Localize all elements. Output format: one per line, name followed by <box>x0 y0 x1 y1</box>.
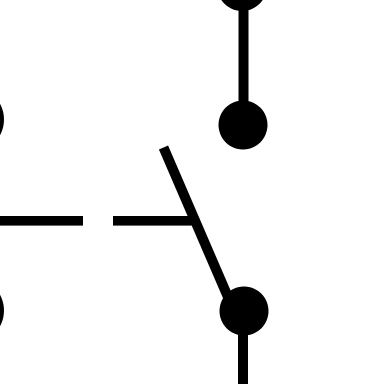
node (top, partially visible at top edge) <box>217 0 267 11</box>
node B (junction dot, common contact) <box>220 287 269 336</box>
terminal (left edge, partially visible, upper) <box>0 87 4 153</box>
wire (vertical, below node B) <box>238 311 248 384</box>
switch arm (movable contact lever) <box>164 148 235 312</box>
wire (vertical, top node to junction) <box>239 0 249 125</box>
node A (junction dot, fixed contact) <box>219 101 268 150</box>
wire (dashed mechanical linkage, right segment) <box>113 216 195 226</box>
terminal (left edge, partially visible, lower) <box>0 278 4 344</box>
wire (dashed mechanical linkage, left segment) <box>0 216 83 226</box>
